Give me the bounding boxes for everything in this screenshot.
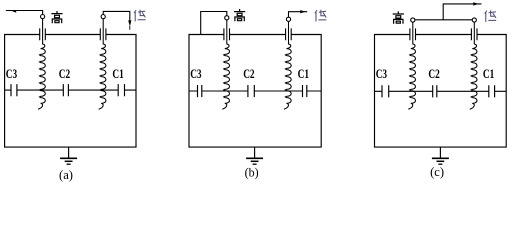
wire: HV terminal of (b) jumpered down to tank top	[201, 12, 227, 35]
svg-text:(b): (b)	[245, 164, 259, 179]
capacitor C2, panel (b)	[248, 85, 254, 97]
HV winding coil, panel (a)	[38, 19, 45, 110]
transformer tank outline, panel (a)	[5, 35, 136, 148]
HV winding coil, panel (c)	[408, 22, 415, 109]
HV terminal circle, panel (b)	[225, 16, 229, 20]
HV bushing capacitor, panel (c)	[410, 28, 416, 40]
wire: HV terminal of (a) to measuring bridge (left), with arrow	[6, 11, 43, 15]
LV bushing capacitor, panel (c)	[471, 28, 477, 40]
svg-text:(a): (a)	[59, 167, 73, 182]
ground symbol, panel (b)	[254, 147, 256, 158]
label 高 (high), panel (a)	[51, 11, 62, 23]
svg-text:C2: C2	[243, 66, 254, 81]
transformer tank outline, panel (c)	[375, 35, 507, 148]
svg-text:C1: C1	[298, 66, 309, 81]
wire: HV and LV terminals of (c) tied together	[415, 19, 472, 21]
HV bushing capacitor, panel (b)	[224, 28, 230, 40]
label 低 (low), panel (a)	[134, 10, 146, 22]
LV terminal circle, panel (c)	[472, 18, 476, 22]
svg-text:C3: C3	[190, 66, 202, 81]
svg-text:(c): (c)	[430, 164, 444, 179]
capacitor C1, panel (a)	[118, 84, 124, 96]
wire: capacitance bus, panel (a)	[5, 89, 136, 91]
capacitor C2, panel (a)	[63, 84, 68, 96]
svg-text:C2: C2	[428, 66, 439, 81]
LV winding coil, panel (b)	[284, 21, 291, 109]
HV terminal circle, panel (c)	[411, 18, 415, 22]
LV bushing capacitor, panel (b)	[286, 28, 292, 40]
wire: LV terminal of (a) jumpered toward tank with down arrow	[103, 11, 130, 20]
capacitor C1, panel (b)	[303, 85, 307, 97]
ground symbol, panel (a)	[68, 147, 70, 158]
capacitor C1, panel (c)	[489, 85, 495, 97]
label 低 (low), panel (c)	[485, 10, 497, 22]
LV winding coil, panel (a)	[99, 19, 106, 110]
wire: LV terminal of (b) to measuring bridge (right), with arrow	[289, 12, 308, 18]
transformer tank outline, panel (b)	[189, 35, 321, 148]
svg-text:C3: C3	[6, 66, 18, 81]
wire: capacitance bus, panel (c)	[375, 90, 507, 92]
label 高 (high), panel (b)	[234, 9, 245, 21]
LV terminal circle, panel (b)	[286, 17, 290, 21]
HV winding coil, panel (b)	[222, 20, 229, 109]
HV terminal circle, panel (a)	[41, 15, 45, 19]
wire: capacitance bus, panel (b)	[189, 90, 321, 92]
LV bushing capacitor, panel (a)	[100, 28, 106, 40]
svg-text:C2: C2	[59, 66, 70, 81]
wire: jumper from tied terminals of (c) to measuring bridge, with arrow	[443, 4, 481, 20]
capacitor C2, panel (c)	[433, 85, 437, 97]
svg-text:C1: C1	[483, 66, 494, 81]
capacitor C3, panel (b)	[198, 85, 202, 97]
svg-text:C3: C3	[376, 66, 388, 81]
ground symbol, panel (c)	[439, 147, 441, 158]
capacitor C3, panel (c)	[382, 85, 389, 97]
LV winding coil, panel (c)	[470, 22, 477, 109]
svg-text:C1: C1	[112, 66, 123, 81]
capacitor C3, panel (a)	[11, 84, 17, 96]
label 低 (low), panel (b)	[315, 10, 327, 22]
label 高 (high), panel (c)	[393, 11, 404, 23]
LV terminal circle, panel (a)	[101, 15, 105, 19]
HV bushing capacitor, panel (a)	[40, 28, 46, 40]
